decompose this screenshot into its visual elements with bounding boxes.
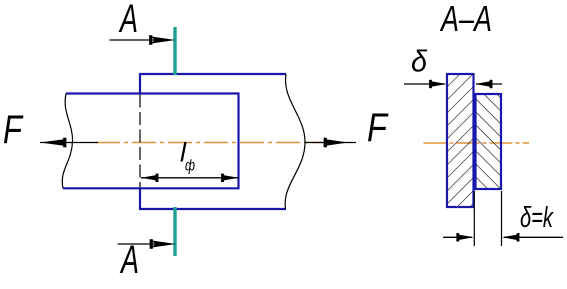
svg-text:δ=k: δ=k [520,202,554,234]
svg-text:A–A: A–A [440,0,492,39]
centerline (axis) [96,142,348,144]
plate 2 (right, behind): contour [140,73,287,210]
plate 2 break line (right end) [285,74,305,209]
section centerline [424,142,530,144]
section bar right (plate 2 cut, hatched) [476,94,502,189]
svg-text:F: F [3,108,24,152]
section bar left (plate 1 cut, hatched) [447,74,474,207]
svg-text:ф: ф [185,158,195,175]
force arrow F (left) [40,138,98,148]
svg-text:A: A [120,238,139,282]
svg-text:A: A [119,0,138,41]
plate 1 (left, front): contour [63,94,239,189]
dimension delta=k (bottom) [443,233,563,241]
dimension delta (top) [404,80,502,88]
plate 1 break line (left end) [62,94,72,189]
bottom section-arrow A [118,239,176,249]
svg-text:F: F [367,106,389,150]
dimension delta=k (bottom) extension lines [474,191,501,246]
dimension l_phi [141,174,239,182]
section cut line A-A, bottom segment (teal) [173,207,176,256]
force arrow F (right) [305,138,356,148]
section cut line A-A, top segment (teal) [173,27,176,75]
svg-text:δ: δ [411,44,428,79]
plate 2 hidden left edge (dashed) [139,95,141,188]
top section-arrow A [110,35,176,45]
